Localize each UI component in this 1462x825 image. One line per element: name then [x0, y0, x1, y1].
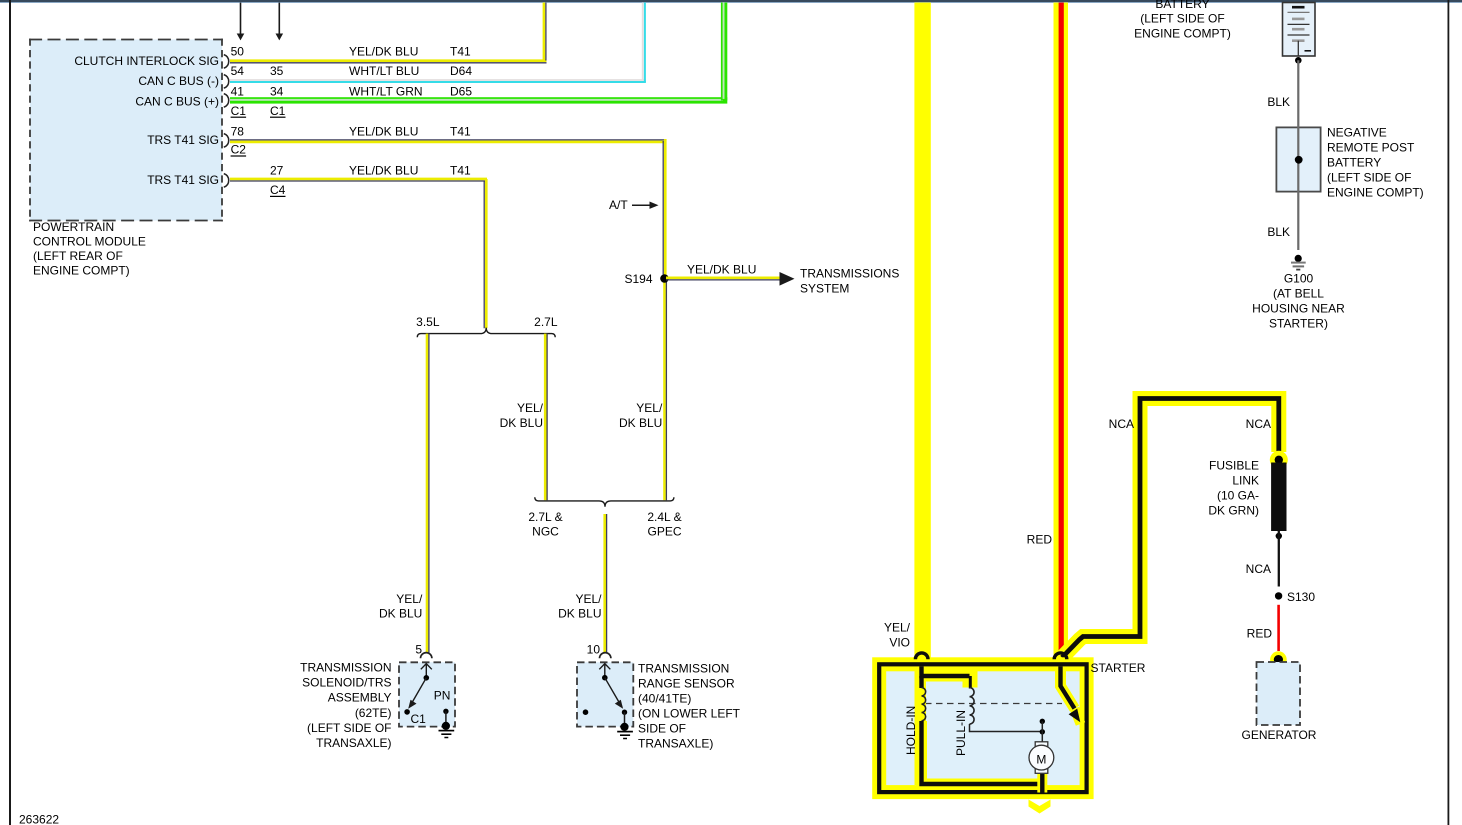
starter solenoid contact blade (highlighted)	[1061, 667, 1081, 725]
svg-text:NCA: NCA	[1246, 562, 1271, 576]
brace 2.7L&NGC / 2.4L&GPEC (opens down)	[528, 497, 681, 538]
ground symbol (solenoid)	[439, 731, 455, 738]
fusible link body	[1271, 463, 1286, 532]
svg-text:REMOTE POST: REMOTE POST	[1327, 141, 1415, 155]
svg-text:CAN C BUS (-): CAN C BUS (-)	[138, 74, 219, 88]
connector C1 C1 labels	[231, 104, 286, 118]
svg-text:CAN C BUS (+): CAN C BUS (+)	[135, 95, 219, 109]
range sensor switch: common dot	[602, 675, 608, 681]
wire 41 WHT/LT GRN D65 (horizontal + vertical riser)	[230, 3, 727, 104]
svg-text:T41: T41	[450, 164, 471, 178]
solenoid switch: blade with arrow	[408, 678, 426, 709]
svg-text:DK BLU: DK BLU	[500, 416, 543, 430]
left page border	[9, 0, 11, 825]
svg-text:BLK: BLK	[1267, 95, 1290, 109]
solenoid switch: common dot	[424, 675, 430, 681]
svg-text:SIDE OF: SIDE OF	[638, 722, 686, 736]
solenoid switch: entry arrow	[421, 664, 432, 678]
wire label row 27	[270, 164, 471, 178]
svg-text:TRANSMISSION: TRANSMISSION	[300, 661, 391, 675]
svg-text:S130: S130	[1287, 590, 1315, 604]
fusible link terminal (highlighted)	[1270, 451, 1288, 469]
wire riser from pin 27 down to 3.5L/2.7L brace	[484, 179, 486, 328]
highlighted circuit continuation chevron below starter	[1029, 800, 1051, 814]
svg-text:(LEFT REAR OF: (LEFT REAR OF	[33, 249, 123, 263]
svg-text:POWERTRAIN: POWERTRAIN	[33, 220, 114, 234]
svg-text:C1: C1	[411, 712, 427, 726]
svg-text:ASSEMBLY: ASSEMBLY	[328, 691, 392, 705]
wire RED S130 to generator	[1277, 605, 1280, 651]
svg-text:(AT BELL: (AT BELL	[1273, 286, 1324, 300]
svg-text:A/T: A/T	[609, 198, 628, 212]
wire 27 YEL/DK BLU T41 (horizontal)	[230, 179, 487, 181]
generator terminal (highlighted)	[1270, 651, 1287, 668]
starter box (highlighted)	[879, 664, 1086, 792]
wire from brace down to range sensor	[605, 514, 607, 653]
svg-text:WHT/LT GRN: WHT/LT GRN	[349, 85, 423, 99]
starter pin arc (red wire)	[1054, 653, 1067, 659]
svg-text:27: 27	[270, 164, 284, 178]
svg-text:GPEC: GPEC	[647, 524, 681, 538]
wire label row 50	[231, 45, 471, 59]
svg-text:TRANSMISSION: TRANSMISSION	[638, 662, 729, 676]
svg-text:HOLD-IN: HOLD-IN	[904, 706, 918, 755]
top window edge bar	[0, 0, 1462, 2]
svg-text:YEL/: YEL/	[517, 401, 544, 415]
svg-text:(10 GA-: (10 GA-	[1217, 489, 1259, 503]
svg-text:D65: D65	[450, 85, 472, 99]
svg-text:(LEFT SIDE OF: (LEFT SIDE OF	[1327, 171, 1411, 185]
starter motor M	[1029, 742, 1054, 774]
svg-text:TRANSAXLE): TRANSAXLE)	[316, 736, 391, 750]
svg-text:41: 41	[231, 85, 245, 99]
svg-text:RANGE SENSOR: RANGE SENSOR	[638, 677, 735, 691]
svg-text:YEL/DK BLU: YEL/DK BLU	[349, 164, 418, 178]
svg-text:RED: RED	[1247, 627, 1273, 641]
range sensor contact dot (blade end) and ground stem	[620, 710, 628, 732]
label YEL/DK BLU (range sensor branch)	[558, 592, 602, 621]
svg-text:50: 50	[231, 45, 245, 59]
svg-text:CLUTCH INTERLOCK SIG: CLUTCH INTERLOCK SIG	[74, 54, 219, 68]
wire 54 WHT/LT BLU D64 (horizontal + vertical riser)	[230, 3, 646, 83]
svg-text:TRS T41 SIG: TRS T41 SIG	[147, 133, 219, 147]
svg-text:SYSTEM: SYSTEM	[800, 282, 849, 296]
wire NCA fusible link to S130	[1276, 531, 1282, 587]
ground symbol (range sensor)	[617, 732, 633, 739]
svg-text:263622: 263622	[19, 813, 59, 825]
svg-text:YEL/DK BLU: YEL/DK BLU	[349, 125, 418, 139]
svg-text:YEL/: YEL/	[636, 401, 663, 415]
wire riser from pin 78 down to S194	[663, 139, 666, 500]
PN contact dot and ground stem	[442, 709, 450, 730]
wire label row 78	[231, 125, 471, 139]
svg-text:VIO: VIO	[889, 635, 910, 649]
solenoid switch: C1 contact dot	[404, 709, 410, 715]
range sensor switch: entry arrow	[599, 664, 610, 678]
solenoid caption	[300, 661, 391, 751]
svg-text:(ON LOWER LEFT: (ON LOWER LEFT	[638, 707, 741, 721]
contact dots above motor	[1040, 719, 1045, 742]
label YEL/VIO	[884, 620, 911, 649]
svg-text:YEL/: YEL/	[396, 592, 423, 606]
solenoid box	[399, 662, 455, 726]
ground G100	[1291, 255, 1306, 270]
svg-text:34: 34	[270, 85, 284, 99]
svg-text:YEL/DK BLU: YEL/DK BLU	[687, 263, 756, 277]
highlighted internal wire: hold-in coil to motor (bottom bar)	[922, 721, 1043, 793]
pin 5 connector arc	[420, 653, 431, 659]
pull-in coil	[970, 688, 975, 724]
svg-text:78: 78	[231, 125, 245, 139]
remote post junction dot	[1295, 156, 1303, 164]
svg-text:C1: C1	[231, 104, 247, 118]
pin 41 connector symbol	[224, 94, 229, 108]
svg-text:2.7L: 2.7L	[534, 315, 558, 329]
svg-text:ENGINE COMPT): ENGINE COMPT)	[33, 264, 130, 278]
svg-text:NCA: NCA	[1109, 417, 1134, 431]
svg-text:ENGINE COMPT): ENGINE COMPT)	[1327, 186, 1424, 200]
wire 50 YEL/DK BLU T41 (horizontal + vertical riser)	[230, 3, 547, 63]
range sensor switch: blade with arrow	[605, 678, 623, 709]
connector C4 label	[270, 183, 286, 197]
svg-text:DK BLU: DK BLU	[619, 416, 662, 430]
svg-text:TRANSAXLE): TRANSAXLE)	[638, 737, 713, 751]
wire 3.5L branch down to solenoid assembly	[427, 334, 429, 653]
svg-text:GENERATOR: GENERATOR	[1242, 728, 1317, 742]
splice S194	[624, 272, 668, 286]
svg-text:PULL-IN: PULL-IN	[954, 710, 968, 756]
svg-text:G100: G100	[1284, 271, 1314, 285]
starter pin arc (yellow wire)	[915, 653, 928, 659]
svg-text:T41: T41	[450, 125, 471, 139]
A/T label and arrow	[609, 198, 659, 212]
starter internal dashed guide line	[925, 703, 1062, 705]
label YEL/DK BLU (solenoid branch)	[379, 592, 423, 621]
pin 78 connector symbol	[224, 134, 229, 148]
connector C2 label	[231, 143, 247, 157]
pin 27 connector symbol	[224, 174, 229, 188]
svg-text:STARTER): STARTER)	[1269, 317, 1328, 331]
highlighted internal feed: pin to coils	[915, 667, 978, 786]
svg-text:NEGATIVE: NEGATIVE	[1327, 126, 1387, 140]
arrow to transmissions system	[780, 272, 795, 286]
svg-text:2.7L &: 2.7L &	[528, 510, 562, 524]
svg-text:ENGINE COMPT): ENGINE COMPT)	[1134, 26, 1231, 40]
battery caption	[1134, 0, 1231, 40]
svg-text:NCA: NCA	[1246, 417, 1271, 431]
top feed arrow 1	[237, 3, 245, 41]
svg-text:T41: T41	[450, 45, 471, 59]
range sensor box	[577, 662, 633, 726]
range sensor contact dot (left, open)	[583, 709, 589, 715]
svg-text:(62TE): (62TE)	[355, 706, 392, 720]
pin 10 connector arc	[600, 653, 611, 659]
svg-text:2.4L &: 2.4L &	[647, 510, 681, 524]
remote post caption	[1327, 126, 1424, 200]
right page border	[1448, 0, 1450, 825]
svg-text:C4: C4	[270, 183, 286, 197]
svg-text:(LEFT SIDE OF: (LEFT SIDE OF	[307, 721, 391, 735]
svg-text:C1: C1	[270, 104, 286, 118]
label YEL/DK BLU (2.7L branch)	[500, 401, 544, 430]
svg-text:STARTER: STARTER	[1091, 661, 1146, 675]
svg-text:(LEFT SIDE OF: (LEFT SIDE OF	[1140, 12, 1224, 26]
svg-text:S194: S194	[624, 272, 652, 286]
highlighted RED wire to starter (yellow band + red core)	[1050, 3, 1071, 666]
svg-text:35: 35	[270, 64, 284, 78]
wire 2.7L branch down to 2.7L&NGC brace	[545, 334, 547, 501]
generator box	[1257, 662, 1301, 725]
svg-text:FUSIBLE: FUSIBLE	[1209, 459, 1259, 473]
G100 caption	[1252, 271, 1345, 330]
svg-text:WHT/LT BLU: WHT/LT BLU	[349, 64, 419, 78]
wire BLK battery to G100 (passes through box)	[1297, 60, 1299, 250]
wire label row 54	[231, 64, 473, 78]
svg-text:SOLENOID/TRS: SOLENOID/TRS	[302, 676, 391, 690]
wire 78 YEL/DK BLU T41 (horizontal to S194 riser)	[230, 140, 666, 142]
svg-text:D64: D64	[450, 64, 472, 78]
svg-text:YEL/DK BLU: YEL/DK BLU	[349, 45, 418, 59]
svg-text:RED: RED	[1027, 533, 1053, 547]
svg-text:BATTERY: BATTERY	[1155, 0, 1209, 11]
svg-text:54: 54	[231, 64, 245, 78]
brace 3.5L / 2.7L (opens up)	[416, 315, 558, 337]
svg-text:C2: C2	[231, 143, 247, 157]
svg-text:YEL/: YEL/	[575, 592, 602, 606]
svg-text:HOUSING NEAR: HOUSING NEAR	[1252, 302, 1345, 316]
label YEL/DK BLU (S194 branch)	[619, 401, 663, 430]
PCM caption	[33, 220, 146, 278]
battery negative terminal dot	[1295, 57, 1302, 64]
label TRANSMISSIONS SYSTEM	[800, 267, 899, 296]
fusible link caption	[1208, 459, 1259, 518]
top feed arrow 2	[276, 3, 284, 41]
svg-text:CONTROL MODULE: CONTROL MODULE	[33, 235, 146, 249]
svg-text:NGC: NGC	[532, 524, 559, 538]
thick highlighted YEL/VIO wire to starter	[914, 3, 930, 663]
svg-text:PN: PN	[434, 689, 451, 703]
splice S130	[1275, 590, 1315, 604]
highlighted NCA wire starter to fusible link	[1062, 399, 1279, 658]
svg-text:YEL/: YEL/	[884, 620, 911, 634]
battery symbol	[1283, 3, 1316, 57]
svg-text:M: M	[1036, 753, 1046, 767]
svg-text:10: 10	[587, 643, 601, 657]
range sensor caption	[638, 662, 741, 751]
svg-text:BATTERY: BATTERY	[1327, 156, 1381, 170]
pin 50 connector symbol	[224, 55, 229, 69]
svg-text:DK BLU: DK BLU	[558, 606, 601, 620]
pull-in coil return wire	[970, 724, 1043, 732]
svg-text:TRANSMISSIONS: TRANSMISSIONS	[800, 267, 899, 281]
hold-in coil	[922, 688, 926, 721]
negative remote post box	[1276, 127, 1320, 191]
svg-text:3.5L: 3.5L	[416, 315, 440, 329]
pin 54 connector symbol	[224, 75, 229, 89]
svg-text:BLK: BLK	[1267, 225, 1290, 239]
wire S194 to transmissions system	[666, 263, 780, 280]
svg-text:LINK: LINK	[1232, 474, 1259, 488]
svg-text:TRS T41 SIG: TRS T41 SIG	[147, 173, 219, 187]
powertrain control module box	[30, 40, 222, 221]
wire label row 41	[231, 85, 473, 99]
svg-text:DK GRN): DK GRN)	[1208, 504, 1259, 518]
svg-text:DK BLU: DK BLU	[379, 606, 422, 620]
svg-text:(40/41TE): (40/41TE)	[638, 692, 691, 706]
